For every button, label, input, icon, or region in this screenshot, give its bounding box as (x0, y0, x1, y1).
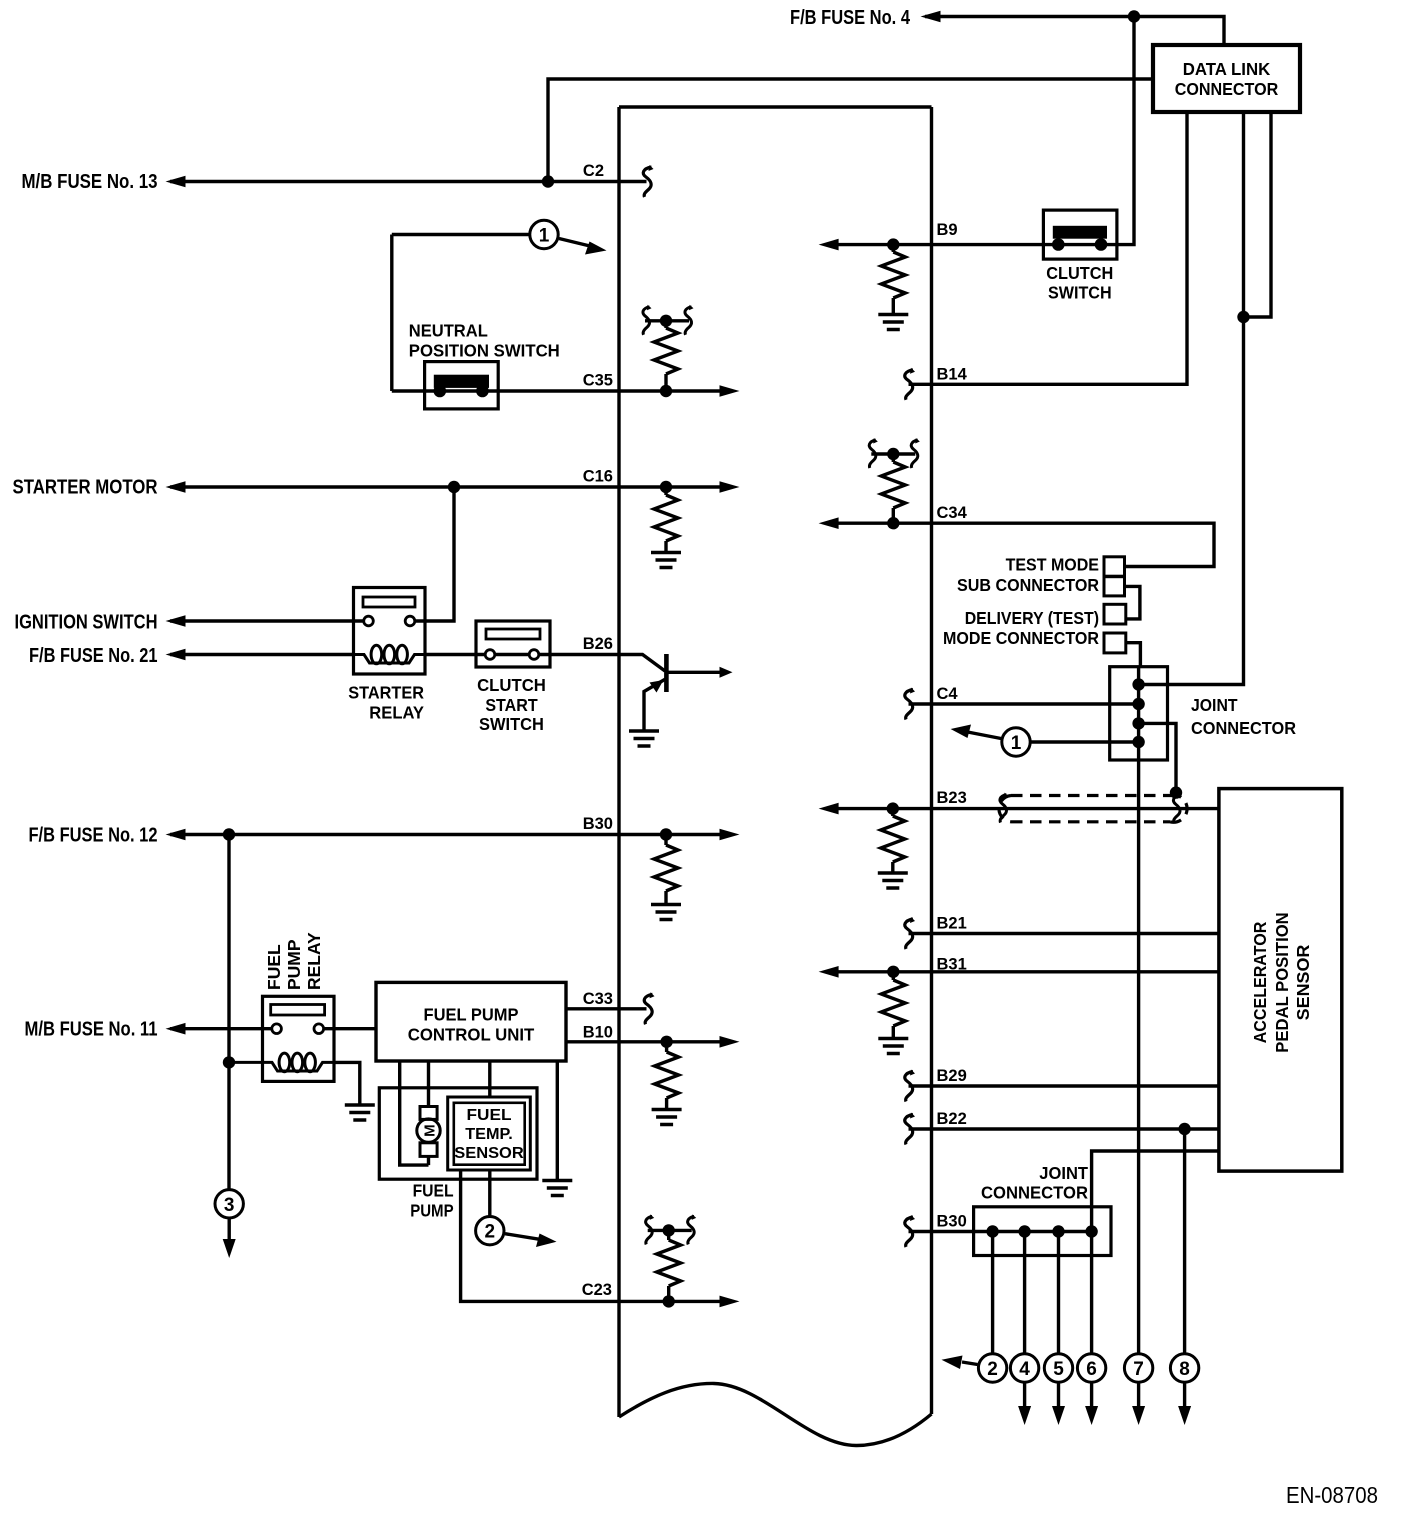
neutral position switch contacts (434, 385, 447, 398)
svg-text:MODE CONNECTOR: MODE CONNECTOR (943, 628, 1099, 648)
fuel pump relay coil (229, 1062, 334, 1071)
wire sensor lower pin to joint connector (lower) (1092, 1151, 1220, 1232)
connector break at B21 (905, 917, 915, 949)
shield break hooks (1000, 793, 1009, 823)
node: B30 in-band junction (660, 828, 672, 840)
svg-text:EN-08708: EN-08708 (1286, 1482, 1378, 1508)
arrow from circled 2 to right (505, 1234, 542, 1240)
circled 1 (right) (1002, 728, 1030, 756)
resistor below B31 (892, 972, 895, 980)
clutch start switch contacts (485, 650, 495, 660)
C35 pull-up: paired connector stub with hooks (645, 319, 689, 322)
svg-text:B22: B22 (937, 1110, 967, 1128)
starter relay coil (354, 655, 426, 664)
wire F/B FUSE No. 4 to data link connector (925, 17, 1224, 46)
wire test mode sub connector to delivery connector (1125, 586, 1140, 619)
ECM connector band: right edge wire (930, 107, 933, 1414)
connector break at B29 (905, 1070, 915, 1102)
svg-text:C23: C23 (582, 1281, 612, 1299)
wire control unit pin 4 down to ground (556, 1061, 559, 1179)
connector break at B14 (905, 368, 915, 400)
svg-text:FUEL: FUEL (264, 944, 284, 990)
wire from C16 junction down to starter relay contact (415, 487, 454, 621)
svg-text:B10: B10 (583, 1024, 613, 1042)
svg-text:START: START (485, 695, 538, 715)
wire motor bottom stem to U wire (427, 1156, 430, 1165)
wire fuel temp sensor to circled 2 (488, 1170, 491, 1217)
svg-text:5: 5 (1053, 1359, 1064, 1380)
node: C23 in-band junction (663, 1295, 675, 1307)
circled 3 (215, 1190, 243, 1218)
svg-text:2: 2 (485, 1222, 496, 1243)
wire fuel pump relay coil to ground (334, 1062, 360, 1104)
node: B10 in-band junction (660, 1036, 672, 1048)
C34 pull-up: paired connector stub with hooks (871, 452, 915, 455)
wire F/B FUSE No. 12 (B30) (170, 833, 732, 836)
wire: top-left corner from C2 line to DATA LINK CONNECTOR (548, 79, 1153, 182)
svg-text:C33: C33 (583, 990, 613, 1008)
delivery mode connector pin square upper (1104, 604, 1126, 624)
wire joint connector pin to circled 1 (1031, 740, 1139, 743)
fuel pump control unit box U1 (376, 982, 566, 1061)
ground below B30 resistor (651, 905, 681, 920)
svg-text:TEST MODE: TEST MODE (1006, 555, 1099, 575)
ground below B9 resistor (878, 315, 908, 330)
svg-text:CLUTCH: CLUTCH (477, 675, 546, 695)
svg-text:M/B FUSE No. 13: M/B FUSE No. 13 (22, 171, 158, 193)
svg-text:DATA LINK: DATA LINK (1183, 59, 1271, 79)
svg-text:NEUTRAL: NEUTRAL (409, 321, 488, 341)
svg-text:F/B FUSE No. 4: F/B FUSE No. 4 (790, 7, 911, 29)
wire B22 to sensor (909, 1127, 1221, 1130)
joint connector internal bus wire (1137, 667, 1140, 760)
resistor above C23 (667, 1230, 670, 1240)
delivery mode connector pin square lower (1104, 633, 1126, 653)
connector break at B30 (lower) (905, 1215, 915, 1247)
svg-text:F/B FUSE No. 21: F/B FUSE No. 21 (29, 645, 158, 667)
arrow from circled 1 to band (559, 239, 592, 247)
wire IGNITION SWITCH to starter relay (170, 619, 364, 622)
arrowhead F/B FUSE No. 21 (166, 649, 186, 661)
data link connector box (1153, 45, 1300, 112)
svg-text:CONTROL UNIT: CONTROL UNIT (408, 1025, 535, 1045)
svg-text:B29: B29 (937, 1067, 967, 1085)
circled 2 (bottom row) (978, 1354, 1006, 1382)
wire below circled 3 with down arrow (227, 1218, 230, 1240)
svg-text:STARTER: STARTER (348, 683, 424, 703)
svg-text:POSITION SWITCH: POSITION SWITCH (409, 341, 560, 361)
svg-text:C35: C35 (583, 372, 613, 390)
node: B9 junction (887, 238, 899, 250)
arrowhead M/B FUSE No. 11 (166, 1023, 186, 1035)
wire F/B FUSE No. 21 to starter relay coil (170, 653, 354, 656)
transistor Q1: emitter wire (644, 679, 666, 730)
wire: left side of neutral position switch loop (390, 235, 393, 392)
arrowhead B23 (left, in band) (819, 803, 839, 815)
ground for control unit pin 4 (542, 1181, 572, 1196)
wire DLC pin to B14 (909, 112, 1188, 384)
wire fuel temp sensor to C23 (461, 1170, 732, 1301)
connector break at B22 (905, 1113, 915, 1145)
node: C35 in-band junction (660, 385, 672, 397)
svg-text:IGNITION SWITCH: IGNITION SWITCH (15, 612, 158, 634)
svg-text:B30: B30 (583, 815, 613, 833)
transistor Q1: base bar (664, 654, 669, 692)
circled 7 (1124, 1354, 1152, 1382)
wire below circled 8 (1183, 1382, 1186, 1406)
neutral position switch box (425, 362, 499, 409)
transistor Q1: collector wire with arrow (668, 671, 722, 674)
neutral position switch contact bar (434, 375, 489, 388)
wire B9 through clutch switch up to fuse line (826, 17, 1134, 245)
wire from neutral switch loop to circled 1 (392, 233, 530, 236)
ground for fuel pump relay coil (345, 1105, 375, 1120)
wires joint connector (lower) pins down to circles (991, 1232, 994, 1355)
svg-text:DELIVERY (TEST): DELIVERY (TEST) (965, 608, 1099, 628)
node: junction on F/B FUSE No.4 line (clutch switch feed) (1128, 10, 1140, 22)
clutch start switch box (476, 621, 550, 667)
svg-text:SWITCH: SWITCH (1048, 283, 1112, 303)
wire DLC pin right down joining middle (1244, 112, 1272, 317)
ground below transistor (629, 731, 659, 746)
svg-text:M/B FUSE No. 11: M/B FUSE No. 11 (25, 1019, 158, 1041)
node: junction of DLC pins (1237, 311, 1249, 323)
node: junction to starter relay (448, 481, 460, 493)
node: B31 junction (887, 966, 899, 978)
fuel temp sensor box (double border) (448, 1097, 531, 1170)
arrowhead B9 (left, in band) (819, 239, 839, 251)
svg-text:STARTER MOTOR: STARTER MOTOR (13, 477, 158, 499)
joint connector pins (1132, 678, 1144, 690)
arrowhead B10 (right, in band) (720, 1036, 740, 1048)
wire below circled 4 (1023, 1382, 1026, 1406)
wire delivery connector to joint connector (1126, 643, 1141, 668)
svg-text:7: 7 (1133, 1359, 1144, 1380)
node: C34 junction (887, 517, 899, 529)
fuel pump relay box (263, 996, 335, 1081)
svg-text:PUMP: PUMP (284, 939, 304, 990)
svg-text:1: 1 (539, 226, 550, 247)
node: junction at fuel pump relay coil (223, 1056, 235, 1068)
svg-text:6: 6 (1086, 1359, 1097, 1380)
wire C35 from switch through band (392, 389, 732, 392)
wire starter relay coil to clutch start switch (425, 653, 485, 656)
svg-text:CONNECTOR: CONNECTOR (1191, 718, 1296, 738)
wire between clutch start switch contacts (495, 653, 529, 656)
arrow from circled 2 into band (962, 1362, 978, 1365)
starter relay contact bar (363, 597, 415, 607)
wire control unit pin 2 down to motor (427, 1061, 430, 1107)
resistor above C35 (664, 321, 667, 328)
node: B23 junction (887, 802, 899, 814)
svg-text:FUEL: FUEL (467, 1107, 512, 1124)
arrowhead B31 (left, in band) (819, 966, 839, 978)
svg-text:RELAY: RELAY (369, 703, 424, 723)
svg-text:JOINT: JOINT (1039, 1163, 1088, 1183)
connector break at C2 (643, 165, 653, 197)
ECM connector band: top edge wire (619, 105, 932, 108)
connector break at C4 (905, 688, 915, 720)
accelerator pedal position sensor box (1219, 789, 1342, 1172)
svg-text:CONNECTOR: CONNECTOR (1175, 79, 1279, 99)
arrowhead C35 (right, in band) (720, 385, 740, 397)
svg-text:FUEL: FUEL (413, 1181, 454, 1201)
svg-text:4: 4 (1019, 1359, 1030, 1380)
ECM connector band: wavy bottom tear line (619, 1383, 932, 1445)
svg-text:C16: C16 (583, 468, 613, 486)
svg-text:2: 2 (987, 1359, 998, 1380)
circled 4 (1010, 1354, 1038, 1382)
svg-text:SENSOR: SENSOR (1293, 944, 1313, 1020)
wire relay contact to fuel pump control unit (324, 1027, 376, 1030)
wire STARTER MOTOR (C16) (170, 485, 732, 488)
arrowhead IGNITION SWITCH (166, 615, 186, 627)
wire below circled 6 (1090, 1382, 1093, 1406)
wire control unit pin 3 down to fuel temp sensor (488, 1061, 491, 1098)
transistor Q1: emitter arrowhead (650, 680, 664, 693)
node: junction to fuel pump relay branch (223, 828, 235, 840)
wire B30 into joint connector (lower) (909, 1230, 1092, 1233)
arrowhead C34 (left, in band) (819, 517, 839, 529)
svg-text:CLUTCH: CLUTCH (1046, 263, 1113, 283)
svg-text:F/B FUSE No. 12: F/B FUSE No. 12 (29, 825, 158, 847)
svg-text:C34: C34 (937, 504, 968, 522)
clutch switch contact bar (1053, 226, 1107, 239)
circled 5 (1044, 1354, 1072, 1382)
arrowhead F/B FUSE No. 4 (921, 11, 941, 23)
arrowhead B30 (right, in band) (720, 829, 740, 841)
svg-text:8: 8 (1179, 1359, 1190, 1380)
svg-text:B14: B14 (937, 365, 968, 383)
ECM connector band: left edge wire (617, 107, 620, 1417)
joint connector box (lower) (974, 1207, 1111, 1256)
node: C16 in-band junction (660, 481, 672, 493)
svg-text:CONNECTOR: CONNECTOR (981, 1183, 1088, 1203)
fuel pump outer box (379, 1088, 537, 1179)
node: B22 junction to circled 8 (1178, 1123, 1190, 1135)
wire M/B FUSE No. 11 to fuel pump relay (170, 1027, 272, 1030)
resistor below B30 (664, 835, 667, 846)
arrowhead F/B FUSE No. 12 (166, 829, 186, 841)
svg-text:JOINT: JOINT (1191, 695, 1238, 715)
wire: fuel pump relay feed down from F/B FUSE No.12 (227, 835, 230, 1190)
circled 8 (1170, 1354, 1198, 1382)
circled 6 (1077, 1354, 1105, 1382)
clutch switch box (1043, 210, 1117, 259)
shielded wire dashed outline around B23 (999, 796, 1187, 823)
wire B22 junction down to circled 8 (1183, 1129, 1186, 1354)
resistor below C16 (664, 487, 667, 495)
svg-text:B30: B30 (937, 1213, 967, 1231)
ground below B31 resistor (878, 1039, 908, 1054)
resistor below B9 (892, 245, 895, 252)
arrowhead M/B FUSE No. 13 (166, 176, 186, 188)
wire joint connector bus down to circled 7 (1137, 760, 1140, 1354)
fuel pump relay contact bar (271, 1005, 325, 1016)
wire C34 to test mode sub connector (826, 523, 1214, 566)
wire M/B FUSE No. 13 to band (C2) (170, 180, 647, 183)
test mode sub connector pin squares (1104, 557, 1125, 576)
clutch switch contacts (1052, 238, 1065, 251)
svg-text:SUB CONNECTOR: SUB CONNECTOR (957, 575, 1099, 595)
wire joint connector pin3 to shield (1139, 723, 1176, 790)
svg-text:C2: C2 (583, 162, 604, 180)
svg-text:PEDAL POSITION: PEDAL POSITION (1272, 912, 1292, 1052)
svg-text:ACCELERATOR: ACCELERATOR (1250, 921, 1270, 1043)
ground below B10 resistor (652, 1110, 682, 1125)
C23 pull-up: paired connector stub with hooks (648, 1229, 692, 1232)
wire B26 from switch into band (539, 655, 665, 672)
svg-text:B21: B21 (937, 915, 967, 933)
node: junction on C2 line (542, 175, 554, 187)
resistor below B23 (891, 809, 894, 816)
fuel pump motor M: bottom stem (420, 1143, 437, 1157)
arrowhead C16 (right, in band) (720, 481, 740, 493)
wire below circled 5 (1057, 1382, 1060, 1406)
wire B29 to sensor (909, 1084, 1221, 1087)
circled 1 (top) (530, 220, 558, 248)
svg-text:TEMP.: TEMP. (465, 1126, 513, 1143)
svg-text:SWITCH: SWITCH (479, 714, 544, 734)
svg-text:SENSOR: SENSOR (454, 1145, 524, 1162)
clutch start switch contact bar (486, 629, 540, 639)
joint connector box (upper) (1110, 667, 1168, 760)
wire B23 to accelerator pedal position sensor (826, 807, 1220, 810)
wire below circled 7 (1137, 1382, 1140, 1406)
joint connector (lower) pins (986, 1225, 998, 1237)
arrow from circled 1 pointing left (965, 732, 1001, 739)
wire C4 to joint connector (909, 702, 1139, 705)
wire B31 to sensor (826, 970, 1220, 973)
svg-text:FUEL PUMP: FUEL PUMP (424, 1005, 519, 1025)
svg-text:M: M (422, 1124, 439, 1137)
svg-text:3: 3 (224, 1195, 235, 1216)
circled 2 (fuel temp sensor) (476, 1217, 504, 1245)
svg-text:PUMP: PUMP (410, 1201, 454, 1221)
fuel pump motor M: circle (417, 1119, 440, 1142)
svg-text:B9: B9 (937, 221, 958, 239)
ground below B23 resistor (878, 873, 908, 888)
svg-text:1: 1 (1011, 733, 1022, 754)
wire B21 to sensor (909, 932, 1221, 935)
connector break at C33 (644, 992, 654, 1024)
fuel pump motor M: top stem (420, 1107, 437, 1120)
svg-text:C4: C4 (937, 685, 959, 703)
svg-text:RELAY: RELAY (304, 932, 324, 990)
fuel pump relay contacts (272, 1024, 282, 1034)
starter relay contacts (364, 616, 374, 626)
ground below C16 resistor (651, 553, 681, 568)
svg-text:B26: B26 (583, 635, 613, 653)
wire control unit pin 1 down-around to fuel pump motor (400, 1061, 429, 1165)
wire B10 from control unit through band (566, 1040, 732, 1043)
arrowhead STARTER MOTOR (166, 481, 186, 493)
starter relay box (354, 588, 426, 675)
node: shield connection dot (1170, 786, 1182, 798)
wire C33 from control unit into band (566, 1007, 647, 1010)
resistor below B10 (665, 1042, 668, 1052)
arrowhead C23 (right, in band) (720, 1296, 740, 1308)
wire DLC pin middle down to joint connector (1142, 112, 1244, 685)
svg-text:B23: B23 (937, 789, 967, 807)
resistor above C34 (892, 454, 895, 462)
